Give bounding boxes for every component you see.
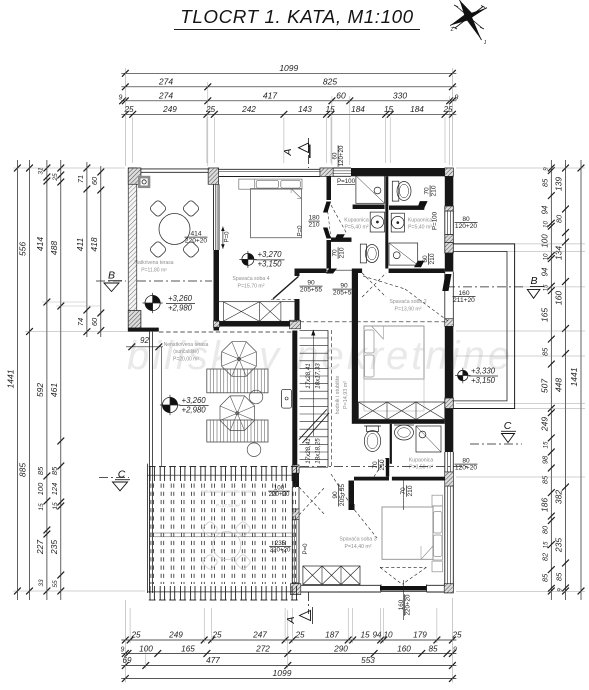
svg-text:25: 25 [294,631,305,640]
terrace chairs [149,199,167,217]
svg-text:P=0: P=0 [225,231,231,243]
svg-text:477: 477 [206,656,220,665]
svg-text:P=0: P=0 [298,225,304,237]
svg-text:P=100: P=100 [337,178,356,185]
svg-text:18x18,25: 18x18,25 [315,438,322,464]
svg-text:10: 10 [543,221,550,228]
elevation marker sun terrace +3,260/+2,980 [162,397,177,412]
svg-text:220+20: 220+20 [270,547,291,554]
pergola bottom border [147,591,295,593]
elevation marker bedroom4 +3,270/+3,150 [242,253,254,265]
elevation marker balcony +3,330/+3,150 [458,370,468,380]
nightstand bedroom3 upper [432,495,442,506]
svg-text:9: 9 [455,94,459,101]
wall block: bedroom4 bottom-left end [214,321,220,327]
wall: lower bathroom bottom [354,477,389,481]
stairs walk line [312,332,314,436]
svg-text:290: 290 [333,644,348,653]
left dimension chain [16,160,18,600]
svg-text:100: 100 [36,482,45,495]
threshold line: bathroom lobby opening [327,269,355,271]
svg-text:A: A [285,616,297,624]
wall: top exterior solid over bathrooms [351,168,445,176]
wall stub: terrace bottom [128,328,159,332]
svg-text:Spavaća soba 3: Spavaća soba 3 [339,537,376,543]
door wedge: bottom-left bathroom [334,234,345,241]
svg-text:210: 210 [407,485,414,496]
terrace gate fixture [282,389,292,408]
left extension lines [13,167,125,169]
svg-text:B: B [530,275,537,287]
svg-text:85: 85 [541,347,550,356]
svg-text:120+20: 120+20 [455,223,478,230]
svg-text:247: 247 [252,631,267,640]
svg-text:274: 274 [158,90,173,100]
svg-text:180: 180 [308,215,319,222]
svg-text:15: 15 [543,441,550,448]
svg-text:+2,980: +2,980 [182,405,207,414]
wall block: right wall hatch pieces [445,206,454,211]
svg-text:139: 139 [554,177,564,191]
svg-text:488: 488 [49,241,59,255]
svg-text:414: 414 [190,231,201,238]
svg-text:71: 71 [76,175,85,183]
sun lounger 1 [207,369,268,393]
svg-text:18x17,33: 18x17,33 [315,363,322,389]
svg-text:210: 210 [431,185,438,196]
wall: bedroom4 bottom [214,321,301,327]
label 70/210 bottom-left bath [332,247,346,259]
svg-text:25: 25 [52,173,59,182]
svg-text:330: 330 [393,90,407,100]
svg-text:235: 235 [49,540,59,555]
terrace top open edge [128,168,208,170]
ghost table below pergola [213,532,241,560]
sunbathing terrace left boundary [149,332,151,593]
elevation marker terrace +3,260/+2,980 [145,295,160,310]
wall: bedroom4 right (to bathrooms) with double door opening [327,176,332,200]
wardrobe bedroom2 [359,402,445,420]
section line A-A bottom [308,592,310,614]
round table terrace [159,214,190,245]
svg-text:418: 418 [89,237,99,251]
svg-text:P=0: P=0 [303,543,309,555]
svg-text:85: 85 [541,475,550,484]
svg-text:1441: 1441 [6,369,16,388]
section line A-A top [308,138,310,168]
svg-text:274: 274 [158,76,173,86]
side table 1 [249,390,263,404]
svg-text:184: 184 [410,105,424,114]
svg-text:249: 249 [168,631,183,640]
svg-text:165: 165 [181,644,195,653]
toilet bottom-left bathroom [360,244,366,263]
svg-text:70: 70 [332,249,339,257]
svg-text:82: 82 [541,552,550,561]
svg-text:15: 15 [360,631,370,640]
svg-text:249: 249 [162,105,177,114]
window: lower bathroom 80/120+20 [444,452,446,472]
svg-text:235: 235 [554,538,564,553]
svg-text:220+20: 220+20 [269,491,290,498]
door wedge: bathroom lobby [326,269,337,274]
right dimension chain [550,160,552,600]
shower top-left bathroom [356,176,385,204]
svg-text:448: 448 [554,378,564,392]
door: bedroom2 balcony 160/211+20 [444,272,446,319]
svg-text:90: 90 [332,491,339,499]
toilet WC room lower [367,426,379,432]
wall block: bedroom3 window top hatch [445,472,454,486]
svg-text:74: 74 [76,318,85,326]
wall: bottom glass wall bedroom3 west segment [301,584,381,586]
svg-text:160: 160 [554,291,564,305]
svg-text:15: 15 [325,105,335,114]
svg-text:220+20: 220+20 [405,594,412,615]
svg-text:70: 70 [372,461,379,469]
door swing dashed: bedroom3 entry [355,510,378,538]
svg-text:C: C [118,469,126,481]
wall: bedroom4 door jamb wall [295,269,300,277]
svg-text:100: 100 [541,234,550,248]
bed bedroom4 fold corner [291,189,301,199]
svg-text:1099: 1099 [273,668,292,678]
svg-text:210: 210 [429,253,436,264]
svg-text:60: 60 [422,255,429,263]
label 70/210 top-right bath [424,185,438,197]
sunbathing terrace dashed top edge [159,331,293,333]
svg-text:1441: 1441 [569,367,579,386]
svg-text:210: 210 [379,459,386,470]
section line C-C middle [300,466,470,468]
terrace 92 dim [126,346,163,348]
section line C-C left [99,477,129,479]
wall block: lower-left hatch piece 2 [292,583,299,594]
shower lower bathroom [416,426,441,452]
svg-text:85: 85 [428,644,438,653]
pergola top rail line [147,474,295,476]
svg-text:15: 15 [52,502,59,510]
svg-text:85: 85 [555,572,564,581]
svg-text:1099: 1099 [279,63,298,73]
door: bedroom3 terrace door 160/220+20 opening [380,585,382,592]
svg-text:227: 227 [35,540,45,555]
svg-text:143: 143 [298,105,312,114]
svg-text:33: 33 [38,579,45,587]
svg-text:25: 25 [130,631,141,640]
wall: bottom glass wall bedroom3 east segment [427,584,445,586]
svg-text:25: 25 [205,105,216,114]
washbasin right bathroom [391,213,404,232]
svg-text:94: 94 [541,267,550,276]
svg-text:Kupaonica: Kupaonica [409,458,434,464]
door: corridor-terrace 100/220+20 [291,487,293,509]
overhead dashed line above stairs [300,321,445,323]
svg-text:25: 25 [211,631,222,640]
label 70/210 WC door [372,459,386,471]
svg-text:60: 60 [90,176,99,185]
svg-text:P=11,80 m²: P=11,80 m² [141,268,167,274]
svg-text:P=13,90 m²: P=13,90 m² [395,307,422,313]
north arrow compass [450,0,487,46]
svg-text:85: 85 [541,178,550,187]
svg-text:15: 15 [543,284,550,291]
door swing dashed: terrace door from corridor [299,487,325,515]
svg-text:15: 15 [384,105,394,114]
svg-text:120+20: 120+20 [338,145,345,166]
label 60/210 bottom-right bath [422,253,436,265]
svg-text:P=20,00 m²: P=20,00 m² [173,357,199,363]
wall: terrace/bedroom4 divider [213,184,215,250]
door swing dashed: balcony door into bedroom2 [405,289,448,321]
svg-text:P=100: P=100 [432,211,439,230]
svg-text:9: 9 [543,167,550,171]
svg-text:+3,260: +3,260 [168,294,193,303]
svg-text:90: 90 [340,283,348,290]
svg-text:(sunčalište): (sunčalište) [173,349,199,355]
toilet top-right bathroom [392,181,399,201]
svg-text:414: 414 [35,237,45,251]
door wedge: top-right bathroom [417,201,428,209]
door swing dashed: into bathroom [331,205,347,234]
svg-text:179: 179 [413,631,427,640]
top dimension chain [121,72,456,74]
bottom extension lines [129,608,131,643]
window: corridor 235/220+20 glass [291,520,293,584]
wall: bathroom divider vertical [385,176,388,268]
bed bedroom4 headboard band with pillows [239,179,302,189]
svg-text:134: 134 [554,246,564,260]
svg-text:17x28,41: 17x28,41 [305,363,312,388]
svg-text:272: 272 [255,644,270,653]
svg-text:+3,270: +3,270 [257,250,282,259]
svg-text:9: 9 [557,588,564,592]
sun lounger 2 [207,420,268,442]
svg-text:553: 553 [361,656,375,665]
label 90/205+55 door bedroom3 rotated [332,484,346,507]
svg-text:556: 556 [18,242,28,256]
svg-text:A: A [282,148,294,156]
svg-text:186: 186 [540,498,550,512]
svg-text:9: 9 [121,646,125,653]
svg-text:P=14,93 m²: P=14,93 m² [343,381,349,409]
svg-text:242: 242 [241,105,256,114]
section line C-C right [470,443,522,445]
svg-text:+3,150: +3,150 [471,376,496,385]
wall block: top-right corner [445,168,454,176]
svg-text:205+55: 205+55 [300,287,323,294]
svg-text:10: 10 [383,631,393,640]
bed bedroom4 mattress [251,189,302,238]
svg-text:+3,330: +3,330 [471,366,496,375]
door swing dashed: bedroom2 entry [362,273,386,297]
pergola beam lines [150,532,295,534]
svg-text:210: 210 [308,222,319,229]
wall block: lower-left hatch piece 1 [292,509,299,520]
wall: right exterior [445,176,454,211]
svg-text:70: 70 [400,487,407,495]
svg-text:411: 411 [75,237,85,251]
svg-text:592: 592 [35,383,45,397]
svg-text:Spavaća soba 4: Spavaća soba 4 [232,276,269,282]
svg-text:220+20: 220+20 [185,238,208,245]
shower bottom-right bathroom [389,243,418,265]
svg-text:Kupaonica: Kupaonica [344,218,369,224]
section line B-B left [96,280,126,282]
svg-text:B: B [108,270,115,282]
top extension lines [132,117,134,163]
wardrobe bedroom4 [216,302,297,322]
wall: bedroom3 left stub + jamb [349,481,355,508]
wall block: terrace bottom-left column [128,311,141,332]
svg-text:80: 80 [541,525,550,534]
stairs flight [327,330,329,467]
svg-text:P=17,50 m²: P=17,50 m² [216,503,240,508]
bottom dimension chain [121,639,456,641]
svg-text:Z: Z [450,27,453,33]
svg-text:69: 69 [122,656,132,665]
pergola posts and slats [149,467,151,482]
wardrobe corridor/bedroom3 [303,566,360,585]
parasol 2 [220,396,255,431]
svg-text:92: 92 [140,336,149,345]
svg-text:80: 80 [462,216,470,223]
svg-text:85: 85 [36,466,45,475]
wall: top exterior glass over bedroom4 [208,168,320,170]
right extension lines [456,167,585,169]
svg-text:94: 94 [541,205,550,214]
svg-text:hodnik i stubište: hodnik i stubište [335,376,341,415]
window: right wall bathroom top 80/120+20 [444,211,446,235]
svg-text:507: 507 [540,379,550,393]
bed bedroom3 [382,507,433,559]
svg-text:Natkrivena terasa: Natkrivena terasa [134,260,173,266]
svg-text:+3,150: +3,150 [257,260,282,269]
svg-text:15: 15 [543,541,550,548]
wall: lower-left exterior with openings [292,465,299,473]
svg-text:+2,980: +2,980 [168,303,193,312]
wall: WC/bathroom divider [390,424,392,464]
svg-text:124: 124 [50,483,59,496]
svg-text:P=3,50 m²: P=3,50 m² [409,465,433,471]
label 160/220+20 bedroom3 door rotated [398,594,412,616]
svg-text:98: 98 [541,455,550,464]
svg-text:80: 80 [555,214,564,223]
svg-text:85: 85 [541,573,550,582]
leader line bedroom3 door label [403,580,405,620]
svg-text:417: 417 [263,90,277,100]
door swing dashed: bedroom3 terrace door [380,566,426,568]
wall block: bottom wall hatch pieces [291,584,301,595]
window wall: bedroom3 glass [444,486,446,586]
wall block: balcony door end hatch [445,319,454,327]
svg-text:17x28,41: 17x28,41 [305,438,312,463]
svg-text:P=15,70 m²: P=15,70 m² [238,284,265,290]
wall: lower bathroom top (bedroom2 bottom) [352,420,445,424]
wall block: bedroom4 bottom-right / stair top-left column [290,320,301,328]
svg-text:TLOCRT 1. KATA, M1:100: TLOCRT 1. KATA, M1:100 [180,6,413,27]
svg-text:90: 90 [307,280,315,287]
svg-text:P=5,40 m²: P=5,40 m² [344,225,368,231]
svg-text:184: 184 [351,105,365,114]
svg-text:205+55: 205+55 [333,290,356,297]
svg-text:210: 210 [339,247,346,258]
stairs boundary dashed [330,330,332,466]
svg-text:249: 249 [540,417,550,432]
svg-text:25: 25 [442,105,453,114]
terrace corner fixture box with dot [138,176,150,188]
bed bedroom2 [364,326,424,379]
svg-text:P=5,40 m²: P=5,40 m² [408,225,432,231]
balcony parapet inner [453,252,507,401]
svg-text:60: 60 [90,317,99,326]
wall: left exterior (terrace, hatched) [128,168,136,331]
section line B-B right [446,286,524,288]
svg-text:165: 165 [540,308,550,322]
svg-text:25: 25 [123,105,134,114]
window: top wall 60/120+20 [333,167,351,169]
svg-text:9: 9 [119,94,123,101]
svg-text:825: 825 [323,76,337,86]
washbasin left bathroom [370,212,384,232]
svg-text:70: 70 [424,187,431,195]
svg-text:461: 461 [49,383,59,397]
svg-text:10: 10 [543,253,550,260]
svg-text:+3,260: +3,260 [182,396,207,405]
svg-text:9: 9 [453,646,457,653]
wall block: terrace top-left column [128,168,141,184]
svg-text:382: 382 [554,490,564,504]
label 60/120+20 top window rotated [332,145,346,167]
svg-text:P=14,40 m²: P=14,40 m² [345,544,372,550]
svg-text:187: 187 [325,631,339,640]
svg-text:80: 80 [462,458,470,465]
parasol 1 [222,342,257,377]
svg-text:85: 85 [50,466,59,475]
nightstand bedroom3 lower [432,561,442,572]
wall block: top chimney hatch [320,168,333,176]
svg-text:60: 60 [336,90,346,100]
door leaf: WC room door [386,458,389,477]
stairs break line [299,409,327,439]
washbasin lower bathroom [395,425,414,440]
svg-text:55: 55 [52,580,59,588]
door leaf: bedroom4 entry door 90 [273,276,299,298]
svg-text:Nenatkrivena terasa: Nenatkrivena terasa [164,342,209,348]
wall: bathroom internal stubs [353,205,385,210]
svg-text:Kupaonica: Kupaonica [408,218,433,224]
label 70/210 bedroom3 [400,485,414,497]
rug bedroom2 [364,379,424,411]
svg-text:205+55: 205+55 [339,484,346,507]
door wedge: bottom-right bathroom [414,261,424,268]
svg-text:15: 15 [38,503,45,511]
svg-text:polukopani garažni prostor: polukopani garažni prostor [201,489,256,494]
svg-text:25: 25 [451,631,462,640]
svg-text:100: 100 [139,644,153,653]
door leaves: bedroom4 wardrobe double door 180/210 [323,202,331,213]
left inner dimension pair [86,162,88,337]
svg-text:211+20: 211+20 [453,297,475,304]
wall block: top-left corner column bedroom4 [208,168,218,184]
side table 2 [247,443,261,457]
wall: stairwell left [292,331,297,471]
svg-text:885: 885 [18,463,28,477]
wall: bedroom2 left [352,269,358,420]
svg-text:C: C [504,420,512,432]
pergola left border [146,464,148,593]
svg-text:Spavaća soba 2: Spavaća soba 2 [389,299,426,305]
